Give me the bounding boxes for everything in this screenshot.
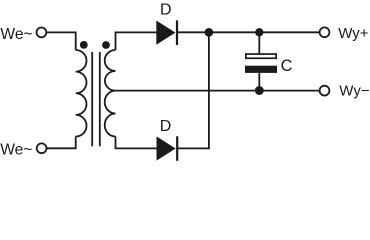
polarity dot secondary <box>102 41 110 49</box>
svg-text:Wy+: Wy+ <box>338 25 369 42</box>
wire from top input terminal to primary <box>47 32 76 50</box>
transformer T1 primary winding <box>76 50 87 137</box>
svg-text:We~: We~ <box>0 142 32 159</box>
wire secondary top lead to diode anode <box>116 32 157 50</box>
wire bottom diode cathode up to top rail <box>178 32 209 148</box>
input terminal We~ top <box>37 28 47 38</box>
transformer T1 secondary winding <box>105 50 116 137</box>
capacitor C positive plate (hollow) <box>246 54 276 58</box>
diode D bottom (triangle) <box>157 136 176 160</box>
svg-text:C: C <box>281 57 293 75</box>
output terminal Wy+ <box>320 27 330 37</box>
diode D bottom cathode bar <box>176 136 178 161</box>
junction node top rail / capacitor <box>255 28 263 36</box>
diode D top cathode bar <box>176 20 178 45</box>
wire secondary bottom lead to bottom diode anode <box>116 137 157 149</box>
polarity dot primary <box>80 41 88 49</box>
wire capacitor top branch <box>258 32 260 53</box>
wire top diode cathode to Wy+ terminal <box>178 31 320 33</box>
diode D top (triangle) <box>156 21 175 45</box>
junction node top rail / bottom diode branch <box>205 28 214 37</box>
svg-text:D: D <box>160 1 172 18</box>
svg-text:We~: We~ <box>0 26 32 43</box>
transformer core <box>92 52 100 146</box>
wire capacitor bottom branch <box>258 73 260 91</box>
svg-text:Wy−: Wy− <box>339 82 370 99</box>
wire from bottom input terminal to primary <box>47 137 76 149</box>
output terminal Wy- <box>320 86 330 96</box>
wire center tap to Wy- terminal <box>116 90 320 92</box>
input terminal We~ bottom <box>37 143 47 153</box>
junction node Wy- rail / capacitor <box>255 86 264 95</box>
capacitor C negative plate (solid) <box>245 66 277 73</box>
svg-text:D: D <box>160 118 172 135</box>
